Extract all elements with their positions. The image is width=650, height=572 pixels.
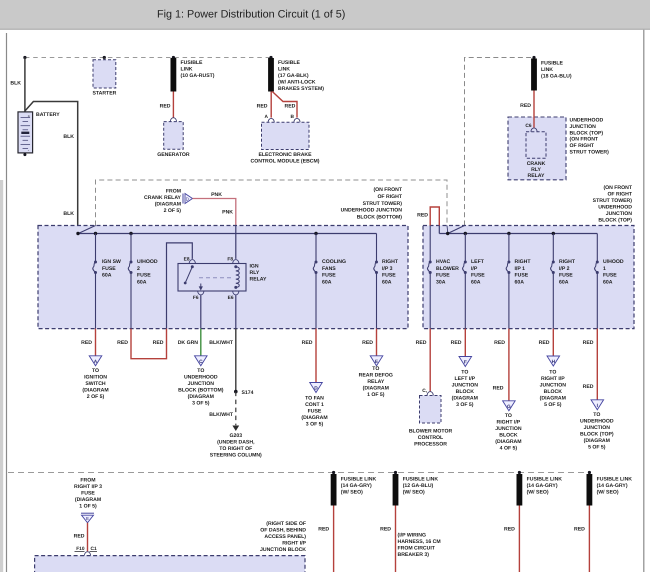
svg-text:C,: C,	[422, 388, 427, 394]
fusible link L4	[587, 474, 593, 506]
wire RIGHT I/P 1 fuse	[508, 234, 510, 263]
node IGN SW fuse tap	[94, 232, 97, 235]
fuse COOLING FANS FUSE 60A	[315, 261, 318, 264]
svg-text:RED: RED	[362, 340, 373, 346]
svg-text:RED: RED	[574, 527, 585, 533]
svg-text:B: B	[291, 114, 295, 120]
svg-text:RED: RED	[285, 103, 296, 109]
svg-text:GENERATOR: GENERATOR	[157, 152, 190, 158]
svg-text:BLK: BLK	[63, 211, 74, 217]
wire U/HOOD 1 fuse	[596, 234, 598, 263]
wire RED from fusible link L4	[588, 506, 590, 572]
wire HVAC blower feed (inside)	[429, 226, 431, 263]
svg-text:RED: RED	[257, 103, 268, 109]
wire BLK battery to bus	[24, 58, 26, 112]
svg-text:PNK: PNK	[211, 192, 222, 198]
svg-text:D: D	[186, 196, 189, 201]
svg-text:RED: RED	[539, 340, 550, 346]
svg-text:STARTER: STARTER	[92, 90, 116, 96]
svg-text:BLK: BLK	[10, 81, 21, 87]
from-arrow E right I/P 3 fuse	[81, 512, 94, 514]
pin fork F10	[84, 552, 90, 556]
svg-text:RED: RED	[520, 103, 531, 109]
pin underline F10	[75, 550, 85, 552]
fusible link L2	[393, 474, 399, 506]
svg-text:S174: S174	[242, 390, 254, 396]
fuse HVAC BLOWER FUSE 30A	[429, 261, 432, 264]
wire RED to EBCM pin A	[270, 92, 272, 118]
svg-text:E: E	[86, 516, 89, 521]
wire IGN SW fuse	[95, 234, 97, 263]
relay switch blade	[191, 265, 194, 268]
diagonal boundary entry right	[448, 226, 465, 234]
wire bus feed leg (inside)	[438, 226, 440, 234]
fuse RIGHT I/P 2 FUSE 60A	[552, 261, 555, 264]
node fusible link F1 tap	[172, 56, 175, 59]
fuse U/HOOD 1 FUSE 60A	[596, 261, 599, 264]
svg-text:RED: RED	[504, 527, 515, 533]
svg-text:RED: RED	[583, 340, 594, 346]
svg-text:BLK: BLK	[63, 134, 74, 140]
pin fork crank relay	[531, 128, 537, 132]
pin fork E8	[189, 260, 195, 264]
svg-text:F8: F8	[227, 257, 233, 263]
svg-text:E6: E6	[228, 295, 234, 301]
from-arrow crank relay	[182, 194, 184, 204]
to-arrow E rear defog relay	[370, 356, 383, 366]
pin fork E6	[233, 291, 239, 295]
svg-text:PNK: PNK	[222, 210, 233, 216]
node BLK feed	[76, 232, 79, 235]
fuse RIGHT I/P 3 FUSE 60A	[375, 261, 378, 264]
diagonal boundary entry left	[78, 226, 95, 234]
svg-text:A: A	[94, 359, 98, 365]
crank relay K1 (empty relay box)	[526, 132, 546, 158]
svg-text:RED: RED	[380, 527, 391, 533]
node boundary tap	[446, 232, 449, 235]
svg-text:E8: E8	[184, 257, 190, 263]
svg-text:BATTERY: BATTERY	[36, 112, 60, 118]
fuse U/HOOD 2 FUSE 60A	[130, 261, 133, 264]
node COOLING FANS fuse tap	[314, 232, 317, 235]
generator	[164, 122, 184, 150]
wire RED from fusible link L2	[395, 506, 397, 572]
wire RED to right I/P junction block (5 of 5)	[552, 329, 554, 361]
relay mechanical link (dashed)	[199, 277, 233, 279]
battery negative stub	[23, 153, 26, 156]
wire RIGHT I/P 2 fuse	[552, 234, 554, 263]
svg-text:RED: RED	[493, 386, 504, 392]
pin fork blower	[427, 392, 433, 396]
wire BLK/WHT S174 to ground (dashed)	[235, 392, 237, 426]
boundary dashed entry (from top)	[446, 226, 449, 233]
svg-text:RED: RED	[318, 527, 329, 533]
svg-text:RED: RED	[583, 384, 594, 390]
wire RED fusible link to generator	[172, 92, 174, 118]
svg-text:(RIGHT SIDE OFOF DASH, BEHINDA: (RIGHT SIDE OFOF DASH, BEHINDACCESS PANE…	[260, 521, 307, 553]
svg-text:BLK/WHT: BLK/WHT	[209, 412, 234, 418]
underhood junction block (bottom) box	[38, 226, 408, 329]
fusible link L1	[331, 474, 337, 506]
node LEFT I/P fuse tap	[464, 232, 467, 235]
relay coil	[234, 265, 237, 268]
pin fork EBCM A	[268, 118, 274, 122]
wire RED to right I/P junction block F10	[87, 523, 89, 552]
fusible link F3 (18 GA-BLU)	[531, 59, 537, 91]
node RIGHT I/P 1 fuse tap	[507, 232, 510, 235]
starter	[93, 60, 116, 88]
wire PNK continuation to F8 (inside box)	[235, 226, 237, 259]
to-arrow G right I/P junction block	[503, 401, 516, 411]
wire RED to right I/P junction block (4 of 5)	[508, 329, 510, 406]
svg-text:F6: F6	[193, 295, 199, 301]
bus wire right block	[439, 233, 597, 235]
pin fork F6	[198, 291, 204, 295]
underhood junction block (top) - crank relay section	[508, 117, 566, 180]
svg-text:RED: RED	[417, 212, 428, 218]
bottom bus (dashed)	[8, 472, 589, 474]
left margin strip	[0, 180, 3, 572]
underhood junction block (top) box	[423, 226, 634, 329]
svg-text:ELECTRONIC BRAKECONTROL MODULE: ELECTRONIC BRAKECONTROL MODULE (EBCM)	[250, 152, 319, 165]
svg-text:D: D	[314, 386, 318, 392]
ground G203 arrow	[232, 426, 239, 432]
svg-text:RED: RED	[153, 340, 164, 346]
wire BLK/WHT to splice S174	[235, 329, 237, 392]
svg-text:A: A	[265, 114, 269, 120]
wire BLK battery to junction block (with diagonal)	[25, 102, 78, 234]
wire DK GRN to underhood junction block bottom	[200, 329, 202, 361]
wire relay E8 feed jog	[167, 243, 193, 329]
svg-text:+: +	[28, 113, 31, 118]
wire RED to left I/P junction block	[464, 329, 466, 362]
wire RED feed loop	[430, 207, 439, 226]
battery positive bus (dashed)	[25, 57, 271, 59]
node battery bus at BLK wire	[23, 56, 26, 59]
fuse RIGHT I/P 1 FUSE 60A	[507, 261, 510, 264]
to-arrow D fan cont 1 fuse	[310, 383, 323, 393]
title bar	[0, 0, 650, 29]
svg-text:RED: RED	[160, 103, 171, 109]
node fusible link L4 tap	[588, 471, 591, 474]
svg-text:RED: RED	[81, 340, 92, 346]
ign relay K2 box	[178, 264, 246, 292]
pin fork EBCM B	[294, 118, 300, 122]
to-arrow C underhood junction block bottom	[195, 356, 208, 366]
battery BAT1	[18, 112, 33, 153]
svg-text:H: H	[552, 359, 556, 365]
svg-text:C6: C6	[525, 123, 531, 129]
wire RED U-loop U/HOOD2 to relay feed	[131, 329, 167, 359]
wire RED fusible link to crank relay	[533, 91, 535, 128]
svg-text:BLK/WHT: BLK/WHT	[209, 340, 234, 346]
svg-text:RED: RED	[302, 340, 313, 346]
fusible link F1 (10 GA-RUST)	[171, 58, 177, 92]
wire E6 down	[235, 295, 237, 328]
pin fork generator	[170, 118, 176, 122]
wire RED to blower motor control processor	[429, 329, 431, 392]
electronic brake control module U1	[262, 122, 310, 149]
page right border	[643, 30, 645, 572]
wire RIGHT I/P 3 fuse	[376, 234, 378, 263]
to-arrow H right I/P junction block 2	[547, 356, 560, 366]
svg-text:RED: RED	[416, 340, 427, 346]
fuse LEFT I/P FUSE 60A	[464, 261, 467, 264]
svg-text:RED: RED	[74, 534, 85, 540]
fuse IGN SW FUSE 60A	[94, 261, 97, 264]
relay moving contact arrow	[200, 284, 202, 288]
to-arrow I underhood junction block top	[591, 400, 604, 410]
node fusible link F3 tap	[532, 56, 535, 59]
wire RED to EBCM pin B	[272, 92, 297, 118]
node starter tap	[103, 56, 106, 59]
bus segment to fusible link (18 GA-BLU) (dashed)	[465, 58, 535, 226]
wire stub starter	[103, 58, 105, 61]
svg-text:G: G	[507, 404, 511, 410]
to-arrow F left I/P junction block	[459, 357, 472, 367]
bus wire left block	[78, 233, 377, 235]
node fusible link F2 tap	[269, 56, 272, 59]
node U/HOOD 2 fuse tap	[129, 232, 132, 235]
wire COOLING FANS fuse	[315, 234, 317, 263]
wire PNK crank relay to F8	[193, 199, 236, 226]
wire LEFT I/P fuse	[464, 234, 466, 263]
fusible link L3	[517, 474, 523, 506]
node fusible link L2 tap	[394, 471, 397, 474]
wire RED from fusible link L1	[333, 506, 335, 572]
node fusible link L1 tap	[332, 471, 335, 474]
svg-text:RED: RED	[451, 340, 462, 346]
wire F6 down	[200, 295, 202, 328]
wire RED to ignition switch	[95, 329, 97, 361]
pin underline C1	[90, 550, 98, 552]
node RIGHT I/P 2 fuse tap	[552, 232, 555, 235]
svg-text:F: F	[464, 360, 467, 366]
svg-text:RED: RED	[117, 340, 128, 346]
wire RED to fan cont 1 fuse	[315, 329, 317, 388]
svg-text:Fig 1: Power Distribution Circ: Fig 1: Power Distribution Circuit (1 of …	[157, 9, 345, 21]
wire U/HOOD 2 fuse	[130, 234, 132, 263]
svg-text:C: C	[199, 359, 203, 365]
to-arrow A ignition switch	[89, 356, 102, 366]
node fusible link L3 tap	[518, 471, 521, 474]
pin fork F8	[233, 260, 239, 264]
svg-text:RED: RED	[494, 340, 505, 346]
wire RED to underhood junction block top	[596, 329, 598, 405]
wire RED from fusible link L3	[518, 506, 520, 572]
group boundary underhood junction block bottom (dashed)	[96, 180, 448, 226]
blower motor control processor U2	[420, 396, 442, 424]
wire RED to rear defog relay	[376, 329, 378, 361]
right I/P junction block box	[35, 556, 305, 572]
page left border	[6, 33, 8, 572]
svg-text:DK GRN: DK GRN	[178, 340, 199, 346]
fusible link F2 (17 GA-BLK)	[268, 58, 274, 92]
splice S174	[234, 390, 238, 394]
